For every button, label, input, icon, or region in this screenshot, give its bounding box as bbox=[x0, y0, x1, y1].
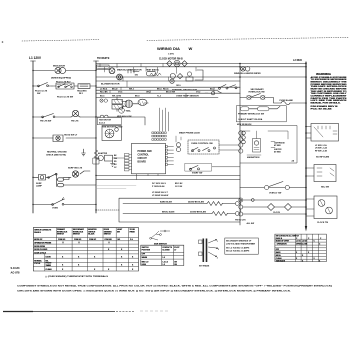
high motor box bbox=[97, 118, 121, 125]
svg-text:TIMER: TIMER bbox=[46, 265, 52, 267]
window heater motor pair bbox=[241, 67, 246, 72]
svg-text:L1 B1: L1 B1 bbox=[296, 241, 301, 243]
svg-text:BU-5: BU-5 bbox=[100, 96, 104, 98]
bake element wire bbox=[123, 203, 235, 205]
clock diamond 2 bbox=[284, 204, 291, 211]
sur unit table grid bbox=[141, 245, 184, 265]
svg-text:PLUG LTS RLY: PLUG LTS RLY bbox=[56, 82, 71, 84]
relay contact box 2 bbox=[112, 105, 123, 109]
svg-text:LF SW L1-1A: LF SW L1-1A bbox=[315, 144, 327, 147]
svg-text:INDICATOR: INDICATOR bbox=[53, 65, 65, 68]
svg-text:OVEN TEMP SENSOR: OVEN TEMP SENSOR bbox=[176, 95, 199, 97]
bus top tick N bbox=[94, 60, 99, 62]
svg-text:MANUAL FOR DETAILS.: MANUAL FOR DETAILS. bbox=[311, 101, 342, 104]
svg-text:AT MED: AT MED bbox=[274, 144, 281, 147]
clock motor diamond 1 bbox=[167, 61, 173, 67]
svg-text:WIRING DIA: WIRING DIA bbox=[157, 46, 180, 51]
ext wires bbox=[240, 131, 288, 148]
node N white bus bbox=[95, 61, 97, 213]
wire left row2 y86 bbox=[33, 85, 96, 87]
svg-text:BK-22: BK-22 bbox=[112, 89, 117, 91]
node L2 bus arrow bbox=[305, 226, 307, 232]
svg-text:TM NO LTS: TM NO LTS bbox=[235, 220, 246, 222]
svg-text:MED HIGH LOW: MED HIGH LOW bbox=[117, 116, 132, 118]
svg-text:SW: SW bbox=[37, 93, 40, 95]
switch plug lts bbox=[38, 83, 48, 87]
cluster links bbox=[117, 97, 148, 111]
clock motor diamond 2 bbox=[182, 61, 188, 67]
vertical drop stubs middle band bbox=[100, 64, 214, 98]
surf pilot box bbox=[39, 175, 46, 181]
svg-text:FIRED: FIRED bbox=[130, 231, 136, 233]
ext component box bbox=[253, 139, 261, 153]
right wire y200 bbox=[243, 199, 306, 201]
svg-text:L1 RD-4: L1 RD-4 bbox=[100, 88, 108, 91]
svg-text:△ (CHECKMARK) THERMOSTAT WITH: △ (CHECKMARK) THERMOSTAT WITH TERMINALS bbox=[44, 275, 109, 278]
svg-text:COOK CYCLE: COOK CYCLE bbox=[34, 252, 47, 254]
svg-text:C M N: C M N bbox=[168, 54, 174, 56]
svg-text:BAKE ELEM: BAKE ELEM bbox=[160, 200, 172, 203]
svg-text:BR-1 BU: BR-1 BU bbox=[175, 183, 183, 185]
svg-text:DOOR CLOSED: DOOR CLOSED bbox=[34, 249, 48, 251]
oven control switches bbox=[192, 148, 209, 151]
svg-text:2400W BK ELEM: 2400W BK ELEM bbox=[188, 200, 204, 203]
aux relay circle bbox=[119, 107, 125, 113]
relay hatches bbox=[114, 100, 144, 108]
svg-text:OPERATION PROBE: OPERATION PROBE bbox=[34, 242, 52, 245]
svg-text:DOOR OPEN: DOOR OPEN bbox=[34, 246, 45, 248]
svg-text:1-3: 1-3 bbox=[162, 264, 165, 266]
svg-text:START SW: START SW bbox=[192, 172, 202, 175]
svg-text:TM LTS SW: TM LTS SW bbox=[40, 121, 51, 123]
adapter link bbox=[96, 157, 125, 159]
primary interlock box bbox=[237, 106, 287, 122]
oven control sw box bbox=[188, 140, 219, 154]
svg-text:RF SW L2-1B: RF SW L2-1B bbox=[315, 150, 328, 152]
svg-text:CLOSED: CLOSED bbox=[162, 249, 170, 251]
svg-text:4-6-5-0: 4-6-5-0 bbox=[99, 121, 105, 124]
svg-text:OVEN: OVEN bbox=[52, 208, 58, 210]
junction dot V240 rail2 bbox=[239, 66, 241, 68]
sel box feeds bbox=[306, 168, 314, 176]
svg-text:LR SW L1-2A: LR SW L1-2A bbox=[315, 147, 328, 150]
indicator lamp bbox=[55, 67, 61, 73]
small circle y81 bbox=[170, 79, 174, 83]
svg-text:PLUG & LTS SW: PLUG & LTS SW bbox=[57, 97, 73, 99]
meat probe circles bbox=[176, 143, 180, 147]
svg-text:PRIMARY INTERLOCK SW: PRIMARY INTERLOCK SW bbox=[238, 113, 264, 116]
right wire y214 bbox=[243, 213, 306, 215]
svg-text:BROIL: BROIL bbox=[276, 255, 281, 257]
svg-text:CHECK (SEE NOTE): CHECK (SEE NOTE) bbox=[46, 155, 66, 157]
svg-text:CYCLE: CYCLE bbox=[34, 263, 41, 265]
wire rail y77 bbox=[96, 76, 306, 78]
clock motor circle bbox=[174, 60, 180, 66]
svg-text:AO 978: AO 978 bbox=[11, 271, 20, 275]
svg-text:COM NO: COM NO bbox=[105, 239, 113, 241]
svg-text:BU-7: BU-7 bbox=[210, 89, 214, 91]
bake element resistor bbox=[207, 202, 223, 206]
svg-text:WH-12 RD: WH-12 RD bbox=[112, 96, 122, 98]
surf box1 feed wires bbox=[306, 127, 311, 139]
svg-text:COM NC: COM NC bbox=[89, 239, 97, 241]
oven light switch bbox=[265, 185, 269, 189]
wire rail y97 bbox=[96, 97, 218, 99]
board top pin row 3 bbox=[152, 139, 166, 141]
board top pin row 2 bbox=[152, 135, 166, 137]
svg-text:OFF: OFF bbox=[142, 254, 146, 256]
relay contact box 1 bbox=[112, 100, 123, 104]
svg-text:COMPONENT SYMBOLS DO NOT REVEA: COMPONENT SYMBOLS DO NOT REVEAL TRUE CON… bbox=[17, 284, 332, 287]
svg-text:OR-9: OR-9 bbox=[176, 85, 181, 87]
svg-text:BK-18 WH: BK-18 WH bbox=[166, 92, 176, 94]
wire left row5 y177 bbox=[33, 171, 90, 177]
svg-text:RD-16: RD-16 bbox=[163, 89, 168, 91]
svg-text:SUR SWITCH: SUR SWITCH bbox=[154, 244, 167, 246]
cluster diamond b bbox=[177, 74, 182, 79]
wire center-right boundary bbox=[239, 64, 241, 226]
wire separator y179.5 bbox=[96, 179, 240, 181]
svg-text:GY-2: GY-2 bbox=[196, 92, 200, 94]
wire rail y81 bbox=[96, 80, 240, 82]
svg-text:RD-3 BK: RD-3 BK bbox=[100, 92, 108, 94]
wire rail y87 bbox=[96, 86, 240, 88]
wire top rail 2 bbox=[96, 66, 306, 68]
secondary interlock switches bbox=[247, 95, 251, 99]
switch surf bbox=[48, 174, 56, 178]
top right dotted rule bbox=[147, 37, 349, 40]
dotted feed wire bbox=[96, 209, 119, 211]
oven light circuit wire bbox=[240, 187, 306, 189]
drop wire x203 bbox=[195, 70, 203, 80]
bottom rule thin bbox=[33, 311, 115, 313]
svg-text:CIRCUITS ARE SHOWN WITH DOOR O: CIRCUITS ARE SHOWN WITH DOOR OPEN. ◇ IND… bbox=[17, 289, 292, 292]
broil element wire bbox=[123, 213, 235, 215]
start switch bbox=[190, 166, 198, 170]
svg-text:COOK: COOK bbox=[46, 256, 52, 258]
twb motor windings bbox=[105, 129, 114, 138]
sel sw box bbox=[314, 165, 336, 182]
therm prot dots bbox=[100, 115, 103, 118]
board right pins bbox=[166, 146, 168, 166]
svg-text:MODE OF: MODE OF bbox=[34, 239, 42, 241]
wire left row3 y117 bbox=[33, 116, 96, 118]
wire top rail 1 bbox=[96, 63, 306, 65]
svg-text:MAIN BLOWER MOTOR: MAIN BLOWER MOTOR bbox=[117, 68, 142, 71]
right column stack circles bbox=[239, 131, 243, 135]
svg-text:ADAPTER: ADAPTER bbox=[98, 152, 108, 155]
svg-text:S.10.83: S.10.83 bbox=[11, 266, 20, 270]
twb motor box bbox=[102, 126, 121, 141]
switch oven bbox=[52, 198, 65, 206]
board left connector column bbox=[125, 154, 130, 171]
heat east box bbox=[147, 71, 157, 76]
svg-text:NEUTRAL GROUND: NEUTRAL GROUND bbox=[47, 151, 67, 154]
broil terminal bbox=[235, 212, 239, 216]
svg-text:DC 100V 26-LV: DC 100V 26-LV bbox=[152, 183, 167, 185]
svg-text:W: W bbox=[189, 46, 193, 51]
svg-text:SWITCH: SWITCH bbox=[104, 234, 112, 236]
left table grid bbox=[33, 228, 138, 271]
svg-text:SEL SW: SEL SW bbox=[321, 186, 329, 188]
svg-text:HOOD SW LT: HOOD SW LT bbox=[64, 135, 78, 137]
right extension box bbox=[240, 126, 297, 164]
board bottom drops bbox=[136, 174, 158, 180]
board outline bbox=[132, 143, 166, 173]
svg-text:P 100N 26-84: P 100N 26-84 bbox=[152, 185, 165, 188]
lamp surf ind bbox=[72, 171, 78, 177]
wire left row6 y204 bbox=[33, 204, 96, 206]
wire separator y175.5 bbox=[96, 175, 240, 177]
board right pin wires bbox=[168, 147, 174, 165]
ticks near blower bbox=[128, 70, 139, 73]
relay coil bbox=[125, 100, 133, 108]
svg-text:PAGE B: PAGE B bbox=[34, 231, 41, 234]
svg-text:FUSE BLANK: FUSE BLANK bbox=[280, 99, 294, 102]
svg-text:TM WHITE: TM WHITE bbox=[97, 57, 110, 60]
svg-text:NO 1-2 704 VAC 0.6 AMPS: NO 1-2 704 VAC 0.6 AMPS bbox=[226, 246, 250, 249]
svg-text:CIRCUIT: CIRCUIT bbox=[138, 158, 148, 160]
svg-text:BROIL ELEM: BROIL ELEM bbox=[162, 211, 175, 213]
broil element resistor bbox=[212, 212, 228, 216]
svg-text:SU INF ELEM: SU INF ELEM bbox=[316, 157, 329, 159]
left table x marks bbox=[62, 242, 110, 244]
junction dots row1 bbox=[32, 70, 33, 71]
adapter symbol bbox=[98, 155, 103, 160]
svg-text:BOARD: BOARD bbox=[138, 161, 147, 164]
svg-text:CLOCK: CLOCK bbox=[273, 212, 281, 214]
svg-text:POWER AND: POWER AND bbox=[138, 150, 153, 153]
svg-text:WARM: WARM bbox=[142, 256, 148, 259]
surf unit box 1 bbox=[311, 124, 339, 142]
svg-text:MAGNETRON: MAGNETRON bbox=[247, 156, 260, 159]
svg-text:GY-6: GY-6 bbox=[118, 92, 122, 94]
blower motor lower circle bbox=[117, 74, 123, 80]
bk44 terminal box bbox=[97, 65, 110, 70]
svg-text:(WHEN EQUIPPED): (WHEN EQUIPPED) bbox=[51, 78, 71, 80]
svg-text:SECONDARY: SECONDARY bbox=[251, 88, 265, 91]
wire y117 row bbox=[96, 117, 145, 125]
cluster circle a bbox=[170, 73, 175, 78]
svg-text:OPERATION: OPERATION bbox=[277, 243, 288, 246]
svg-text:TDAL: TDAL bbox=[126, 110, 132, 113]
resistor on N bus bbox=[93, 150, 99, 164]
left margin dot bbox=[2, 41, 4, 43]
svg-text:H-BOLT SHAFT 20L/20A: H-BOLT SHAFT 20L/20A bbox=[239, 118, 263, 121]
clock diamond 1 bbox=[267, 204, 274, 211]
node L1 bus bbox=[32, 61, 34, 213]
svg-text:MEAT PROBE JACK: MEAT PROBE JACK bbox=[179, 132, 200, 135]
svg-text:BLACK: BLACK bbox=[88, 233, 95, 236]
bottom rule thick bbox=[3, 311, 33, 313]
footnote triangle note bbox=[44, 275, 109, 278]
svg-text:YL-3: YL-3 bbox=[157, 96, 161, 98]
svg-text:CLEAN: CLEAN bbox=[46, 268, 53, 271]
resistor mid bbox=[150, 73, 161, 76]
svg-text:OVEN CONTROL SW: OVEN CONTROL SW bbox=[191, 143, 214, 145]
switch tm lts bbox=[42, 114, 54, 118]
thermal protector switch bbox=[219, 85, 236, 89]
svg-text:1-2: 1-2 bbox=[162, 257, 165, 259]
holding relay box bbox=[78, 84, 90, 89]
svg-text:WARNING: WARNING bbox=[316, 72, 332, 76]
svg-text:BLOWER MOTOR: BLOWER MOTOR bbox=[101, 84, 120, 86]
oven control link stubs bbox=[212, 145, 240, 167]
svg-text:LT-200W 26-LV-T: LT-200W 26-LV-T bbox=[152, 192, 168, 194]
bake broil box bbox=[119, 198, 240, 222]
transformer secondary leads bbox=[208, 240, 216, 256]
primary interlock switches bbox=[240, 107, 249, 111]
svg-text:SURF IND LTS: SURF IND LTS bbox=[68, 168, 83, 170]
svg-text:SH TRANS: SH TRANS bbox=[199, 264, 210, 267]
cluster circle c bbox=[187, 72, 191, 76]
sensor bulb y93 bbox=[211, 92, 214, 95]
twin connectors bbox=[57, 174, 58, 187]
lamp tm lts bbox=[72, 110, 78, 116]
board top pin row 1 bbox=[152, 132, 166, 134]
clock tm box bbox=[314, 196, 337, 219]
svg-text:LT-200W 26-84-W: LT-200W 26-84-W bbox=[152, 194, 168, 197]
svg-text:HIGH MOTOR: HIGH MOTOR bbox=[99, 119, 112, 121]
link stack bbox=[240, 202, 242, 212]
wire left row4 y138 bbox=[33, 137, 96, 139]
junction dots rails bbox=[305, 63, 307, 65]
svg-text:L2 RED: L2 RED bbox=[293, 59, 302, 62]
ext stacked circles bbox=[242, 131, 246, 135]
svg-text:WH-2: WH-2 bbox=[129, 89, 134, 91]
svg-text:COM NO: COM NO bbox=[58, 239, 66, 241]
svg-text:COM NO: COM NO bbox=[74, 239, 82, 241]
svg-text:CLOCK MOTOR RN-B: CLOCK MOTOR RN-B bbox=[159, 59, 183, 61]
bottom rule dashes bbox=[116, 311, 134, 313]
svg-text:BK-8: BK-8 bbox=[135, 96, 139, 98]
bake terminal bbox=[235, 202, 239, 206]
ground symbol check note bbox=[82, 149, 86, 156]
pre-relay circles bbox=[100, 99, 103, 102]
svg-text:LOW VOLTAGE TRANSFORMER: LOW VOLTAGE TRANSFORMER bbox=[226, 242, 256, 245]
svg-text:SWITCH: SWITCH bbox=[73, 234, 81, 236]
small text rows under separator bbox=[96, 186, 136, 189]
svg-text:RLY: RLY bbox=[79, 93, 84, 95]
board feed verticals bbox=[160, 108, 169, 131]
svg-text:WINDOW & HEATER WIPER: WINDOW & HEATER WIPER bbox=[234, 72, 261, 75]
svg-text:POSITION: POSITION bbox=[142, 249, 151, 251]
svg-text:MODE OF OPER: MODE OF OPER bbox=[276, 241, 290, 243]
svg-text:SW: SW bbox=[117, 231, 120, 233]
svg-text:GY-1 BU: GY-1 BU bbox=[175, 186, 183, 188]
svg-text:OPEN CLOSE: OPEN CLOSE bbox=[296, 244, 308, 246]
relay cluster row2 bbox=[52, 83, 78, 89]
svg-text:1: 1 bbox=[217, 241, 218, 243]
wire left row1 y70.5 bbox=[33, 70, 96, 72]
svg-text:INTERLOCK SW: INTERLOCK SW bbox=[249, 92, 265, 94]
secondary windings box bbox=[225, 238, 258, 254]
node L2 bus bbox=[305, 62, 307, 226]
svg-text:NO 4-5 704 VAC 2.5 AMPS: NO 4-5 704 VAC 2.5 AMPS bbox=[226, 249, 250, 252]
connector wires to board bbox=[129, 155, 132, 170]
bus top tick L1 bbox=[31, 60, 36, 62]
right wire y207 clock bbox=[243, 206, 306, 208]
magnetron label link bbox=[247, 154, 261, 156]
svg-text:2: 2 bbox=[218, 249, 219, 251]
svg-text:SWITCH: SWITCH bbox=[57, 234, 65, 236]
secondary interlock wire bbox=[240, 98, 306, 104]
svg-text:CLOCK TM: CLOCK TM bbox=[317, 222, 328, 224]
right table grid bbox=[275, 234, 326, 262]
svg-text:OVEN LT SW: OVEN LT SW bbox=[269, 193, 281, 195]
svg-text:SECONDARY WINDINGS OF: SECONDARY WINDINGS OF bbox=[226, 239, 252, 242]
svg-text:L2 B2: L2 B2 bbox=[302, 241, 307, 243]
main blower motor circle bbox=[109, 68, 115, 74]
oven light assembly bbox=[53, 135, 63, 142]
fuse blank symbol bbox=[281, 101, 290, 105]
svg-text:L1 120V: L1 120V bbox=[29, 56, 42, 60]
svg-text:PAGE B: PAGE B bbox=[276, 237, 283, 240]
svg-text:HEAT (EAST): HEAT (EAST) bbox=[146, 68, 159, 71]
junction dot board separator bbox=[95, 175, 96, 176]
wire rail y90 bbox=[96, 89, 218, 91]
svg-text:TIME BAKE: TIME BAKE bbox=[276, 259, 286, 262]
svg-text:HIGH: HIGH bbox=[142, 264, 147, 266]
transformer bars bbox=[203, 239, 206, 263]
clock box feeds bbox=[306, 199, 314, 216]
svg-text:3000W BR ELEM: 3000W BR ELEM bbox=[190, 211, 206, 213]
svg-text:LAMP: LAMP bbox=[36, 185, 43, 188]
wire rail y93 bbox=[96, 92, 240, 94]
svg-text:OFF: OFF bbox=[276, 249, 279, 251]
svg-text:AT MED: AT MED bbox=[274, 151, 281, 154]
svg-text:ALL SW: ALL SW bbox=[247, 222, 255, 225]
svg-text:TWB MOTOR PLL RED: TWB MOTOR PLL RED bbox=[102, 127, 123, 129]
cluster box d bbox=[186, 77, 193, 81]
svg-text:TM LTS: TM LTS bbox=[71, 121, 79, 123]
svg-text:3: 3 bbox=[217, 257, 218, 259]
svg-text:CONTROL: CONTROL bbox=[138, 155, 150, 157]
svg-text:FCC ID 30-55: FCC ID 30-55 bbox=[311, 108, 334, 110]
top left dotted rule bbox=[22, 40, 99, 41]
relay aux box bbox=[138, 99, 147, 105]
transformer terminals bbox=[199, 240, 203, 244]
svg-text:MON SW BK-WH: MON SW BK-WH bbox=[237, 124, 252, 126]
sur switch sketch bbox=[151, 231, 170, 240]
